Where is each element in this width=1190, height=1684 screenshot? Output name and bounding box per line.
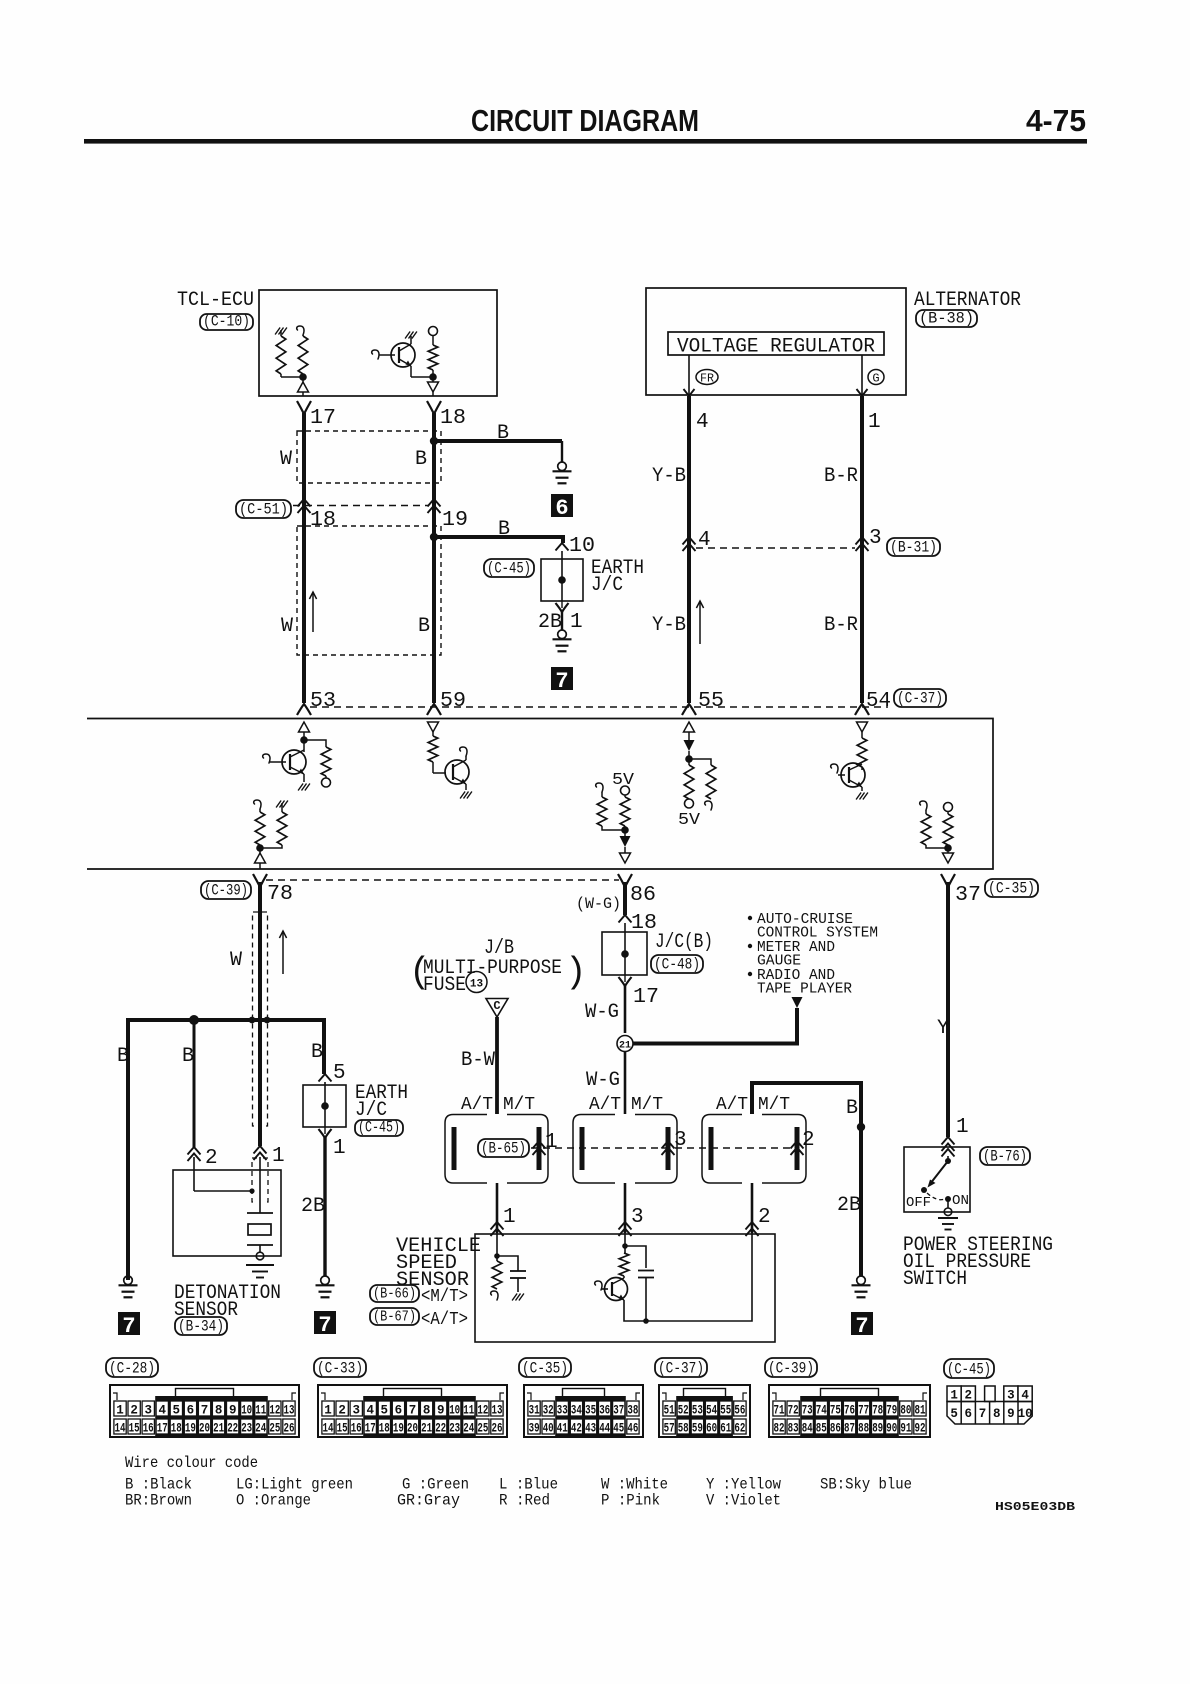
connector capsule C-10 <box>200 314 253 330</box>
svg-text:(C-37): (C-37) <box>658 1360 704 1378</box>
connector capsule B-31 <box>887 538 940 556</box>
svg-text:8: 8 <box>993 1407 1001 1421</box>
wire to ground 7 upper <box>561 610 563 630</box>
svg-text:W-G: W-G <box>586 1069 620 1092</box>
flow arrow on Y-B wire <box>699 601 701 644</box>
svg-text:14: 14 <box>323 1422 334 1436</box>
resistor ECU R11 <box>947 812 949 815</box>
svg-text:7: 7 <box>122 1314 135 1339</box>
connector C-28 shading band <box>155 1396 268 1436</box>
svg-text:55: 55 <box>720 1404 731 1418</box>
svg-text:Wire colour code: Wire colour code <box>125 1454 258 1472</box>
svg-text:24: 24 <box>463 1422 474 1436</box>
svg-text:Y: Y <box>937 1017 949 1040</box>
connector C-37 pin cells row1 <box>663 1401 675 1416</box>
svg-text:(W-G): (W-G) <box>576 895 621 913</box>
resistor ECU R6 with curl <box>689 759 711 765</box>
svg-text:(C-45): (C-45) <box>947 1361 991 1379</box>
svg-text:24: 24 <box>255 1422 266 1436</box>
connector capsule C-28 bottom <box>106 1358 158 1377</box>
svg-text:1: 1 <box>116 1404 124 1418</box>
svg-text:83: 83 <box>788 1422 799 1436</box>
connector C-35 pin cells row2 <box>528 1419 540 1434</box>
chevrons into power steering switch <box>942 1137 955 1145</box>
svg-text:55: 55 <box>698 690 724 713</box>
svg-text:4: 4 <box>1021 1389 1029 1403</box>
svg-text:52: 52 <box>678 1404 689 1418</box>
ground ref box 7 (B wire) <box>118 1312 140 1335</box>
svg-text:4: 4 <box>367 1404 375 1418</box>
port circle 5V wire86 <box>621 786 630 795</box>
svg-text:9: 9 <box>229 1404 237 1418</box>
emitter to chassis hatch ECU Q1 <box>303 774 305 782</box>
svg-text:W: W <box>281 615 293 638</box>
svg-text:17: 17 <box>310 407 336 430</box>
wire group3 to VSS <box>751 1183 754 1233</box>
svg-text:54: 54 <box>706 1404 717 1418</box>
resistor ECU R7 <box>861 732 863 738</box>
svg-text:B: B <box>846 1097 858 1120</box>
connector C-39 dashed link <box>266 879 619 881</box>
svg-text:13: 13 <box>470 979 484 991</box>
svg-text:3: 3 <box>631 1206 644 1229</box>
wire B pin18 upper segment <box>432 413 436 537</box>
svg-text:10: 10 <box>1018 1407 1033 1421</box>
ground ref box 7 upper <box>551 667 573 690</box>
svg-text:2: 2 <box>965 1389 973 1403</box>
pin Y 59 into control unit <box>427 704 441 715</box>
engine control unit box <box>87 719 993 870</box>
svg-text:A/T: A/T <box>589 1095 621 1115</box>
switch to case ground <box>947 1199 949 1208</box>
svg-text:1: 1 <box>545 1131 558 1154</box>
svg-text:HS05E03DB: HS05E03DB <box>995 1500 1075 1514</box>
svg-text:2B: 2B <box>837 1194 861 1217</box>
junction node wire78 <box>259 845 261 853</box>
svg-text:5: 5 <box>381 1404 389 1418</box>
svg-text:33: 33 <box>557 1404 568 1418</box>
wire B-R from alternator pin 1 <box>860 396 864 703</box>
pin Y below earth J/C <box>561 601 563 608</box>
svg-text:2B: 2B <box>538 611 562 634</box>
connector group B-65 <box>445 1115 487 1184</box>
svg-text:1: 1 <box>503 1206 516 1229</box>
svg-text:17: 17 <box>157 1422 168 1436</box>
svg-text:7: 7 <box>409 1404 417 1418</box>
connector C-37 pinout box <box>659 1385 750 1437</box>
svg-text:87: 87 <box>844 1422 855 1436</box>
svg-text:26: 26 <box>284 1422 295 1436</box>
wire 78 (W) <box>258 882 262 1146</box>
wire B branch to earth J/C <box>434 537 563 543</box>
svg-text:2: 2 <box>130 1404 138 1418</box>
collector curl ECU Q2 <box>465 756 467 760</box>
fuse triangle C terminal <box>486 999 508 1018</box>
resistor ECU R10 with curl (wire 37) <box>920 801 927 810</box>
svg-text:(C-37): (C-37) <box>897 690 943 708</box>
pin Y 86 below ECU <box>618 874 632 887</box>
svg-text:17: 17 <box>633 986 659 1009</box>
svg-text:3: 3 <box>869 527 882 550</box>
svg-text:39: 39 <box>529 1422 540 1436</box>
connector C-37 dashed link <box>310 706 888 708</box>
svg-text:2: 2 <box>758 1206 771 1229</box>
junction node on wire B <box>430 437 438 445</box>
connector capsule C-45 upper <box>484 559 534 577</box>
svg-text:W: W <box>230 949 242 972</box>
svg-text:21: 21 <box>421 1422 432 1436</box>
connector B-31 dashed link <box>696 547 855 549</box>
svg-text:40: 40 <box>543 1422 554 1436</box>
connector capsule C-39 bottom <box>765 1358 817 1377</box>
svg-text:89: 89 <box>872 1422 883 1436</box>
resistor TCL R3 <box>432 336 434 346</box>
svg-text:59: 59 <box>440 690 466 713</box>
svg-text:3: 3 <box>144 1404 152 1418</box>
svg-text:78: 78 <box>267 883 293 906</box>
svg-text:B: B <box>418 615 430 638</box>
svg-text:56: 56 <box>734 1404 745 1418</box>
inline chevrons group3 <box>791 1141 804 1149</box>
svg-text:(C-28): (C-28) <box>109 1360 155 1378</box>
svg-text:57: 57 <box>664 1422 675 1436</box>
pin Y 78 below ECU <box>253 874 267 887</box>
inline chevrons B-65 <box>533 1141 546 1149</box>
pin triangle 78 inside ECU <box>255 853 266 863</box>
wire B pin19 lower segment <box>432 537 436 703</box>
svg-text:A/T: A/T <box>716 1095 748 1115</box>
pin triangle 37 inside ECU <box>943 853 954 863</box>
svg-text:3: 3 <box>674 1129 687 1152</box>
connector capsule C-45 bottom <box>944 1359 994 1378</box>
svg-text:B-R: B-R <box>824 614 858 637</box>
connector C-33 pin cells row1 <box>322 1401 334 1416</box>
resistor TCL R1 with chassis hatch <box>275 328 280 335</box>
transistor ECU Q3 <box>831 764 838 773</box>
svg-text:7: 7 <box>555 669 568 694</box>
connector capsule C-37 <box>894 689 946 707</box>
svg-text:37: 37 <box>613 1404 624 1418</box>
junction node B wire <box>857 1123 865 1131</box>
svg-text:J/C: J/C <box>591 574 623 597</box>
svg-text:): ) <box>565 952 587 993</box>
pin triangle 53 inside ECU <box>299 722 310 732</box>
svg-text:3: 3 <box>352 1404 360 1418</box>
svg-text:9: 9 <box>1007 1407 1015 1421</box>
svg-text:43: 43 <box>585 1422 596 1436</box>
svg-text:M/T: M/T <box>503 1095 535 1115</box>
wire to detonation sensor pin 2 <box>193 1020 196 1147</box>
ground symbol B/2B wire <box>857 1276 866 1285</box>
wire group2 to VSS <box>624 1183 627 1233</box>
flow arrow on wire W <box>312 592 314 632</box>
wire B-W from fuse <box>495 1017 499 1114</box>
svg-text:(B-66): (B-66) <box>373 1286 416 1303</box>
svg-text:85: 85 <box>816 1422 827 1436</box>
junction node ECU-53 <box>300 736 308 744</box>
junction node inside earth J/C <box>558 576 566 584</box>
pin Y 37 below ECU <box>941 874 955 887</box>
svg-text:19: 19 <box>393 1422 404 1436</box>
junction node on wire B at 537 <box>430 533 438 541</box>
arrow pin G at box edge <box>857 389 868 396</box>
connector capsule B-34 <box>175 1317 227 1335</box>
connector capsule B-66 <box>370 1285 419 1302</box>
svg-text:(C-35): (C-35) <box>522 1360 568 1378</box>
svg-text:92: 92 <box>915 1422 926 1436</box>
svg-text:(C-48): (C-48) <box>654 956 700 974</box>
svg-text:36: 36 <box>599 1404 610 1418</box>
emitter to chassis hatch ECU Q3 <box>861 787 863 791</box>
svg-text:VOLTAGE REGULATOR: VOLTAGE REGULATOR <box>677 336 875 359</box>
inner shield dashed <box>252 1158 257 1202</box>
svg-text:(B-38): (B-38) <box>919 310 974 328</box>
svg-text:FUSE: FUSE <box>423 974 466 997</box>
resistor ECU R9 with chassis hatch <box>276 801 281 808</box>
emitter to chassis hatch ECU Q2 <box>465 784 467 790</box>
svg-text:6: 6 <box>965 1407 973 1421</box>
svg-text:B: B <box>497 422 509 445</box>
svg-text:37: 37 <box>955 884 981 907</box>
wire W-G upper <box>624 984 627 1033</box>
svg-text:22: 22 <box>227 1422 238 1436</box>
inline chevrons detonation pin2 <box>188 1147 201 1155</box>
svg-text:1: 1 <box>272 1145 285 1168</box>
ALTERNATOR box <box>646 288 906 395</box>
svg-text:15: 15 <box>337 1422 348 1436</box>
svg-text:Y-B: Y-B <box>652 465 686 488</box>
emitter wire to junction <box>410 366 412 377</box>
arrow pin into earth J/C lower <box>319 1074 332 1082</box>
connector capsule C-37 bottom <box>655 1358 707 1377</box>
svg-text:17: 17 <box>365 1422 376 1436</box>
svg-text:74: 74 <box>816 1404 827 1418</box>
svg-text:21: 21 <box>213 1422 224 1436</box>
svg-text:5: 5 <box>173 1404 181 1418</box>
svg-text:6: 6 <box>555 496 568 521</box>
svg-text:6: 6 <box>187 1404 195 1418</box>
svg-text:7: 7 <box>318 1313 331 1338</box>
svg-text:B: B <box>415 448 427 471</box>
pin triangle (open, down) pin 18 internal <box>432 377 434 382</box>
svg-text:(C-45): (C-45) <box>358 1119 400 1137</box>
connector capsule C-35 bottom <box>519 1358 571 1377</box>
svg-text:90: 90 <box>886 1422 897 1436</box>
svg-text:10: 10 <box>449 1404 460 1418</box>
connector C-28 pin cells row1 <box>114 1401 126 1416</box>
svg-text:44: 44 <box>599 1422 610 1436</box>
junction node TCL R1/R2 <box>299 373 307 381</box>
svg-text:15: 15 <box>129 1422 140 1436</box>
resistor ECU R5 <box>684 765 694 799</box>
inline connector chevrons C-51 right <box>428 499 441 507</box>
svg-text:62: 62 <box>734 1422 745 1436</box>
svg-text:11: 11 <box>463 1404 474 1418</box>
svg-text:B: B <box>182 1045 194 1068</box>
junction node TCL Q1/R3 <box>429 373 437 381</box>
svg-text:51: 51 <box>664 1404 675 1418</box>
svg-text:20: 20 <box>199 1422 210 1436</box>
detonation sensor box <box>173 1170 281 1256</box>
connector capsule C-35 top <box>985 879 1038 897</box>
svg-text:5V: 5V <box>678 811 701 830</box>
ground symbol left B wire <box>124 1276 133 1285</box>
transistor TCL Q1 <box>372 350 379 359</box>
svg-text:53: 53 <box>692 1404 703 1418</box>
svg-text:32: 32 <box>543 1404 554 1418</box>
svg-text:80: 80 <box>900 1404 911 1418</box>
sensor case ground circle <box>259 1245 261 1253</box>
port circle 5V wire55 <box>688 798 690 800</box>
wire Y-B from alternator pin 4 <box>687 396 691 703</box>
wire B branch to ground 6 <box>434 439 562 443</box>
wire 2B to ground <box>323 1136 326 1276</box>
svg-text:16: 16 <box>351 1422 362 1436</box>
svg-text:M/T: M/T <box>631 1095 663 1115</box>
VSS bottom rail <box>624 1233 752 1321</box>
svg-text:3: 3 <box>1007 1389 1015 1403</box>
svg-text:W-G: W-G <box>585 1001 619 1024</box>
svg-text:34: 34 <box>571 1404 582 1418</box>
circled 13 fuse number <box>466 972 487 993</box>
svg-text:(C-51): (C-51) <box>239 501 288 519</box>
svg-text:58: 58 <box>678 1422 689 1436</box>
svg-text:13: 13 <box>492 1404 503 1418</box>
svg-text:1: 1 <box>324 1404 332 1418</box>
svg-text:(C-10): (C-10) <box>203 313 250 331</box>
shield dashed left <box>253 912 259 1126</box>
piezo element crystal <box>248 1224 271 1235</box>
svg-text:(B-67): (B-67) <box>373 1309 416 1326</box>
connector C-33 shading band <box>363 1396 476 1436</box>
junction node VSS3 <box>622 1243 628 1249</box>
VOLTAGE REGULATOR box <box>668 332 884 355</box>
junction node bus/detonation <box>189 1015 199 1025</box>
junction node wire86 <box>624 826 626 836</box>
svg-text:5: 5 <box>950 1407 958 1421</box>
chevron inside switch box <box>942 1149 955 1157</box>
svg-text:25: 25 <box>269 1422 280 1436</box>
dashed harness box upper <box>297 431 441 483</box>
svg-text:SB:Sky blue: SB:Sky blue <box>820 1476 912 1494</box>
svg-text:4: 4 <box>159 1404 167 1418</box>
wire B to group3 <box>752 1083 861 1276</box>
svg-text:G: G <box>872 372 879 386</box>
svg-text:14: 14 <box>115 1422 126 1436</box>
wire Y (37) down <box>946 882 950 1137</box>
svg-text:19: 19 <box>185 1422 196 1436</box>
svg-text:7: 7 <box>201 1404 209 1418</box>
svg-text:FR: FR <box>700 372 714 386</box>
svg-text:(C-35): (C-35) <box>988 880 1035 898</box>
connector C-33 pin cells row2 <box>322 1419 334 1434</box>
svg-text:B: B <box>117 1045 129 1068</box>
svg-text:59: 59 <box>692 1422 703 1436</box>
svg-text:54: 54 <box>866 690 891 713</box>
svg-text:35: 35 <box>585 1404 596 1418</box>
svg-text:O :Orange: O :Orange <box>236 1492 311 1510</box>
pin Y below earth J/C lower <box>324 1127 326 1134</box>
junction node wire37 <box>944 844 952 852</box>
svg-text:60: 60 <box>706 1422 717 1436</box>
connector C-45 pinout <box>947 1386 961 1402</box>
svg-text:23: 23 <box>241 1422 252 1436</box>
junction node VSS cap <box>643 1318 649 1324</box>
connector capsule B-65 <box>478 1139 529 1157</box>
connector capsule B-76 <box>980 1147 1030 1165</box>
port circle above TCL R3 <box>429 327 438 336</box>
resistor VSS R1 with curl <box>492 1261 502 1289</box>
power steering switch box <box>904 1147 970 1212</box>
junction node shield/sensor <box>249 1188 254 1193</box>
inline connector chevrons C-51 left <box>298 499 311 507</box>
inline connector chevrons at B-31 right <box>856 537 869 545</box>
svg-text:SWITCH: SWITCH <box>903 1268 967 1291</box>
EARTH J/C box lower <box>303 1085 346 1127</box>
ground bus wire B <box>128 1020 324 1280</box>
svg-text:78: 78 <box>872 1404 883 1418</box>
connector C-35 pin cells row1 <box>528 1401 540 1416</box>
svg-text:GR:Gray: GR:Gray <box>397 1492 460 1510</box>
svg-text:<A/T>: <A/T> <box>421 1310 468 1330</box>
svg-text:7: 7 <box>979 1407 987 1421</box>
svg-text:V :Violet: V :Violet <box>706 1492 781 1510</box>
svg-text:26: 26 <box>492 1422 503 1436</box>
C-51 dashed link <box>293 505 428 507</box>
svg-text:Y-B: Y-B <box>652 614 686 637</box>
svg-text:73: 73 <box>802 1404 813 1418</box>
svg-text:7: 7 <box>855 1314 868 1339</box>
collector wire to chassis hatch <box>410 336 412 344</box>
resistor VSS R2 <box>619 1253 629 1276</box>
svg-text:19: 19 <box>442 509 468 532</box>
resistor ECU R3 (5V pull-up) <box>624 795 626 797</box>
pin Y terminal 18 <box>427 401 441 414</box>
svg-text:46: 46 <box>627 1422 638 1436</box>
branch wire to other systems <box>633 1008 797 1044</box>
svg-text:13: 13 <box>284 1404 295 1418</box>
ground symbol 2B wire <box>321 1276 330 1285</box>
svg-text:8: 8 <box>215 1404 223 1418</box>
wire W pin17 upper segment <box>302 413 306 537</box>
svg-text:16: 16 <box>143 1422 154 1436</box>
switch pivot node <box>945 1158 951 1164</box>
pin triangle 54 inside ECU <box>857 722 868 732</box>
pin Y terminal 17 <box>297 401 311 414</box>
J/C(B) box <box>602 932 647 975</box>
svg-text:12: 12 <box>477 1404 488 1418</box>
svg-text:11: 11 <box>255 1404 266 1418</box>
svg-text:8: 8 <box>423 1404 431 1418</box>
capacitor VSS C2 <box>625 1246 646 1268</box>
svg-text:ON: ON <box>952 1193 969 1209</box>
svg-text:86: 86 <box>630 884 656 907</box>
connector C-37 shading band <box>676 1396 733 1436</box>
vehicle speed sensor box <box>475 1234 775 1342</box>
svg-text:75: 75 <box>830 1404 841 1418</box>
svg-text:J/C(B): J/C(B) <box>655 931 713 954</box>
splice circle 21 <box>617 1036 633 1052</box>
wire pin2 inside sensor <box>193 1157 195 1191</box>
svg-text:5: 5 <box>333 1062 346 1085</box>
ground ref box 7 (2B wire) <box>314 1311 336 1334</box>
svg-text:45: 45 <box>613 1422 624 1436</box>
terminal G circle <box>868 370 884 385</box>
connector C-39 pin cells row1 <box>773 1401 785 1416</box>
svg-text:B: B <box>311 1041 323 1064</box>
svg-text:76: 76 <box>844 1404 855 1418</box>
resistor TCL R2 with curl top <box>297 326 304 335</box>
